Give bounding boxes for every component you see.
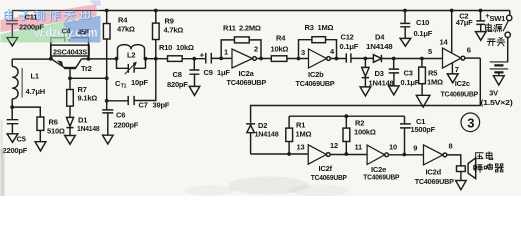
svg-text:820pF: 820pF bbox=[167, 80, 188, 89]
emitter arrowhead bbox=[58, 61, 63, 67]
ground (C8) bbox=[189, 86, 200, 95]
op-amp IC2f bbox=[308, 145, 326, 164]
svg-text:7: 7 bbox=[455, 65, 459, 74]
svg-text:4.7μH: 4.7μH bbox=[26, 87, 45, 96]
pin7 wire bbox=[451, 63, 453, 74]
svg-text:IC2d: IC2d bbox=[426, 168, 442, 177]
capacitor C5 bbox=[7, 107, 19, 134]
node base/emitter dots bbox=[68, 76, 72, 80]
capacitor C11 (overprint) bbox=[6, 11, 18, 46]
svg-text:13: 13 bbox=[297, 143, 305, 152]
node circled 3 bbox=[461, 113, 480, 132]
wire left column down to L1 bbox=[11, 59, 13, 66]
svg-text:1N4148: 1N4148 bbox=[77, 124, 100, 133]
pin14 wire bbox=[451, 11, 453, 53]
svg-text:47μF: 47μF bbox=[456, 18, 473, 27]
wire base line bbox=[70, 77, 107, 79]
switch SW1 bbox=[507, 15, 512, 20]
piezo horn bbox=[468, 158, 476, 179]
resistor R6 bbox=[37, 117, 44, 130]
svg-text:C5: C5 bbox=[17, 135, 26, 144]
svg-text:10kΩ: 10kΩ bbox=[176, 43, 194, 52]
svg-text:100kΩ: 100kΩ bbox=[354, 128, 376, 137]
capacitor C9 bbox=[206, 53, 221, 64]
wire feedback line bbox=[289, 115, 404, 117]
resistor R11 feedback bbox=[221, 40, 261, 59]
svg-text:IC2b: IC2b bbox=[308, 70, 324, 79]
svg-text:6: 6 bbox=[467, 45, 471, 54]
svg-text:45F: 45F bbox=[78, 30, 90, 37]
resistor R3 feedback bbox=[299, 40, 337, 59]
wire node to R6 bbox=[12, 107, 40, 117]
svg-text:5: 5 bbox=[428, 47, 432, 56]
piezo element bbox=[457, 166, 466, 172]
capacitor C10 bbox=[400, 11, 410, 39]
svg-text:1N4148: 1N4148 bbox=[255, 130, 279, 139]
ground (C10) bbox=[400, 38, 411, 46]
svg-text:TC4069UBP: TC4069UBP bbox=[311, 173, 347, 182]
svg-text:SW1: SW1 bbox=[490, 14, 506, 23]
svg-text:R3: R3 bbox=[305, 23, 314, 32]
svg-text:R4: R4 bbox=[276, 34, 286, 43]
svg-text:1μF: 1μF bbox=[217, 68, 230, 77]
label 压电蜂鸣器 buzzer bbox=[474, 152, 504, 173]
inductor L2 bbox=[117, 45, 144, 59]
svg-text:C10: C10 bbox=[416, 18, 429, 27]
svg-text:12: 12 bbox=[330, 141, 338, 150]
op-amp IC2a bbox=[232, 49, 253, 68]
svg-text:2.2MΩ: 2.2MΩ bbox=[239, 24, 261, 33]
ground (IC2c pin7) bbox=[447, 74, 458, 83]
trimmer CT1 bbox=[117, 59, 146, 73]
resistor R2 bbox=[345, 116, 347, 128]
capacitor C12 bbox=[346, 53, 373, 62]
svg-text:R10: R10 bbox=[159, 43, 172, 52]
svg-text:0.1μF: 0.1μF bbox=[340, 42, 359, 51]
resistor R10 bbox=[168, 56, 183, 62]
svg-text:R11: R11 bbox=[223, 24, 236, 33]
svg-text:1N4148: 1N4148 bbox=[366, 42, 393, 51]
svg-text:TC4069UBP: TC4069UBP bbox=[441, 89, 479, 98]
ground (C2) bbox=[476, 32, 487, 41]
ground (C11) bbox=[7, 38, 18, 46]
svg-text:10kΩ: 10kΩ bbox=[271, 45, 289, 54]
svg-text:2200pF: 2200pF bbox=[3, 146, 28, 155]
svg-text:3V: 3V bbox=[489, 89, 498, 98]
svg-text:10: 10 bbox=[389, 143, 397, 152]
diode D2 bbox=[246, 124, 255, 133]
svg-text:L2: L2 bbox=[127, 51, 135, 60]
svg-text:14: 14 bbox=[440, 38, 449, 47]
diode D1 bbox=[66, 117, 73, 135]
scan smudges (decorative) bbox=[1, 121, 349, 197]
capacitor C6 bbox=[102, 101, 113, 135]
svg-text:C4: C4 bbox=[62, 29, 71, 36]
ground (C6) bbox=[103, 135, 114, 144]
svg-text:R9: R9 bbox=[165, 17, 174, 26]
svg-text:4.7kΩ: 4.7kΩ bbox=[164, 26, 184, 35]
svg-text:11: 11 bbox=[355, 143, 363, 152]
capacitor C2 bbox=[476, 11, 485, 32]
ground (D1) bbox=[65, 136, 76, 145]
wire C7 line bbox=[107, 100, 129, 102]
op-amp IC2e bbox=[367, 145, 385, 164]
svg-text:4: 4 bbox=[330, 47, 335, 56]
svg-text:1MΩ: 1MΩ bbox=[296, 130, 312, 139]
svg-text:R5: R5 bbox=[428, 68, 437, 77]
svg-text:0.1μF: 0.1μF bbox=[414, 29, 433, 38]
svg-text:1: 1 bbox=[224, 48, 228, 57]
svg-text:1MΩ: 1MΩ bbox=[318, 23, 334, 32]
ground (battery) bbox=[493, 76, 504, 85]
svg-text:2200pF: 2200pF bbox=[19, 23, 44, 32]
svg-text:(1.5V×2): (1.5V×2) bbox=[481, 98, 514, 107]
wire IC2c out down and across bbox=[251, 58, 481, 123]
capacitor C7 bbox=[128, 59, 156, 105]
wire collector node to L2 bbox=[89, 58, 117, 60]
resistor R1 bbox=[288, 142, 290, 155]
svg-text:1500pF: 1500pF bbox=[411, 125, 436, 134]
ground (R6) bbox=[35, 142, 46, 151]
svg-text:TC4069UBP: TC4069UBP bbox=[296, 79, 335, 88]
wire bottom row input bbox=[251, 153, 309, 155]
capacitor C1 bbox=[400, 116, 411, 154]
capacitor C3 bbox=[389, 59, 399, 86]
wire IC2d out bbox=[447, 155, 461, 166]
svg-text:IC2f: IC2f bbox=[319, 164, 333, 173]
label 电源 switch bbox=[485, 24, 505, 46]
wire to IC2a bbox=[221, 57, 232, 59]
top power rail bbox=[12, 10, 510, 12]
battery 3V bbox=[507, 38, 509, 62]
svg-text:1MΩ: 1MΩ bbox=[427, 77, 443, 86]
svg-text:D3: D3 bbox=[375, 69, 384, 78]
svg-text:Tr2: Tr2 bbox=[81, 64, 92, 73]
ground (D3) bbox=[360, 87, 371, 96]
ground (C3) bbox=[389, 86, 400, 95]
node rail dots bbox=[105, 9, 109, 13]
svg-text:2SC4043S: 2SC4043S bbox=[53, 47, 87, 56]
node main line dots bbox=[49, 57, 53, 61]
svg-text:8: 8 bbox=[449, 142, 453, 151]
svg-text:TC4069UBP: TC4069UBP bbox=[363, 173, 399, 182]
inductor L1 bbox=[12, 67, 18, 99]
svg-text:2200pF: 2200pF bbox=[114, 121, 139, 130]
part box 2SC4043S bbox=[51, 45, 89, 56]
svg-text:D4: D4 bbox=[375, 33, 385, 42]
resistor R9 bbox=[155, 11, 157, 24]
wire rail left (overprint) bbox=[12, 10, 100, 12]
svg-text:C9: C9 bbox=[204, 68, 213, 77]
resistor R5 bbox=[421, 59, 423, 68]
svg-text:R1: R1 bbox=[296, 121, 305, 130]
svg-text:C12: C12 bbox=[341, 33, 354, 42]
transistor Tr2 bbox=[51, 59, 65, 68]
svg-text:C8: C8 bbox=[173, 70, 182, 79]
wire main line left bbox=[12, 58, 51, 60]
node bottom row dots bbox=[287, 152, 291, 156]
resistor R4b bbox=[271, 56, 287, 62]
svg-text:R6: R6 bbox=[49, 118, 58, 127]
svg-text:TC4069UBP: TC4069UBP bbox=[415, 177, 454, 186]
svg-text:9.1kΩ: 9.1kΩ bbox=[78, 94, 98, 103]
op-amp IC2b bbox=[309, 49, 327, 68]
svg-text:L1: L1 bbox=[31, 72, 39, 81]
resistor R7 bbox=[69, 78, 71, 89]
wire L1 to bottom node bbox=[11, 99, 13, 107]
svg-text:0.1μF: 0.1μF bbox=[401, 78, 420, 87]
capacitor C11 bbox=[6, 11, 18, 38]
svg-text:39pF: 39pF bbox=[153, 101, 170, 110]
op-amp IC2d bbox=[424, 145, 443, 165]
wire rail drop to switch bbox=[509, 11, 511, 16]
svg-text:C3: C3 bbox=[404, 68, 413, 77]
resistor R4 bbox=[106, 11, 108, 24]
capacitor C4 bbox=[51, 34, 89, 59]
wire L2 right to R10 bbox=[146, 58, 168, 60]
svg-text:10pF: 10pF bbox=[131, 78, 148, 87]
svg-text:C11: C11 bbox=[25, 13, 38, 22]
op-amp IC2c bbox=[443, 48, 462, 68]
svg-text:47kΩ: 47kΩ bbox=[117, 25, 135, 34]
ground (R5) bbox=[416, 95, 430, 107]
svg-text:3: 3 bbox=[467, 115, 474, 130]
ground (C5) bbox=[7, 134, 18, 143]
svg-text:3: 3 bbox=[301, 48, 305, 57]
svg-text:1N4148: 1N4148 bbox=[369, 79, 394, 88]
diode D4 bbox=[373, 55, 442, 63]
svg-text:R4: R4 bbox=[118, 16, 128, 25]
svg-text:IC2c: IC2c bbox=[455, 79, 470, 88]
svg-text:C6: C6 bbox=[116, 111, 125, 120]
svg-text:R2: R2 bbox=[355, 118, 364, 127]
capacitor C8 bbox=[189, 59, 199, 87]
svg-text:IC2a: IC2a bbox=[239, 69, 255, 78]
svg-text:510Ω: 510Ω bbox=[47, 127, 65, 136]
svg-text:T1: T1 bbox=[121, 84, 127, 90]
diode D3 bbox=[362, 59, 369, 87]
svg-text:2: 2 bbox=[254, 45, 258, 54]
svg-text:9: 9 bbox=[413, 144, 417, 153]
svg-text:TC4069UBP: TC4069UBP bbox=[227, 78, 267, 87]
ground (piezo) bbox=[456, 181, 467, 190]
svg-text:C7: C7 bbox=[139, 101, 148, 110]
